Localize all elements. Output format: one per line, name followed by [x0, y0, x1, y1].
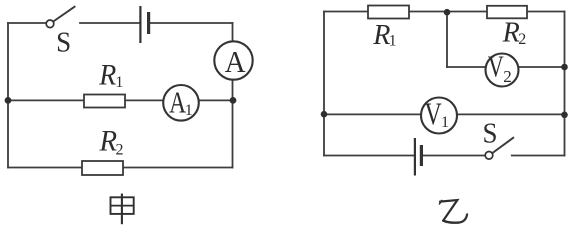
svg-text:1: 1 [185, 102, 193, 119]
svg-text:V: V [425, 97, 443, 132]
svg-text:R: R [502, 17, 520, 48]
svg-text:1: 1 [441, 114, 449, 131]
svg-text:A: A [169, 85, 186, 119]
svg-text:2: 2 [503, 67, 512, 86]
svg-text:A: A [225, 45, 246, 79]
svg-text:S: S [483, 118, 498, 150]
svg-text:1: 1 [389, 33, 397, 50]
svg-text:1: 1 [115, 74, 123, 91]
svg-text:R: R [99, 125, 118, 158]
svg-text:V: V [488, 49, 504, 84]
svg-text:S: S [56, 27, 71, 59]
svg-text:2: 2 [518, 31, 526, 48]
svg-text:2: 2 [116, 142, 124, 159]
svg-text:R: R [98, 59, 116, 92]
